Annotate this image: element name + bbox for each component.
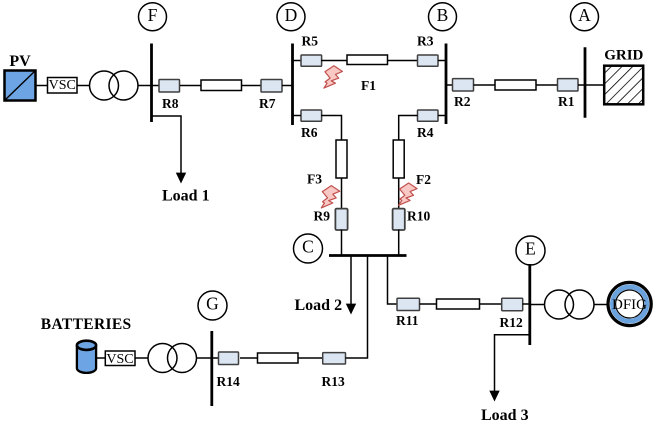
relay R1 (558, 79, 579, 109)
generator DFIG (608, 282, 651, 325)
svg-text:R7: R7 (259, 96, 276, 111)
wire bus F to R8 (152, 85, 160, 87)
fault F3 lightning (307, 172, 340, 208)
svg-text:R13: R13 (322, 374, 345, 389)
svg-text:Load 2: Load 2 (295, 297, 343, 314)
load 2 arrow (295, 256, 357, 315)
line F-D impedance (201, 80, 242, 91)
wire VSC to transformer (135, 357, 148, 359)
node C (294, 234, 323, 263)
svg-text:R10: R10 (407, 209, 430, 224)
svg-text:VSC: VSC (49, 78, 76, 93)
bus B (445, 44, 448, 125)
converter VSC (PV) (48, 78, 78, 94)
svg-text:R14: R14 (217, 374, 240, 389)
relay R7 (259, 80, 282, 112)
wire R9 to bus C (341, 230, 343, 256)
relay R12 (500, 298, 523, 330)
bus G (210, 331, 213, 406)
svg-text:F2: F2 (416, 172, 431, 187)
transformer T2 (battery) (148, 344, 197, 373)
line C-E impedance (437, 299, 480, 309)
svg-text:R2: R2 (454, 94, 471, 109)
relay R2 (453, 79, 474, 109)
wire bus B to R2 (446, 84, 453, 86)
bus D (291, 44, 294, 126)
node B (429, 3, 457, 31)
bus E (528, 264, 531, 345)
wire line to R1 (536, 84, 558, 86)
wire R13 to bus C (346, 256, 368, 359)
svg-text:R3: R3 (417, 33, 434, 48)
svg-text:F: F (148, 5, 158, 25)
wire bus D to R6 (293, 115, 302, 117)
svg-text:R8: R8 (162, 96, 179, 111)
wire R4 to line F2 (399, 116, 418, 141)
wire R5 to line F1 (321, 60, 347, 62)
wire transformer to bus F (138, 85, 152, 87)
bus F (150, 44, 153, 123)
svg-text:D: D (285, 5, 298, 25)
relay R14 (217, 352, 240, 389)
line D-C impedance F3 (336, 140, 347, 178)
wire R3 to bus B (438, 60, 446, 62)
line D-B impedance F1 (347, 55, 388, 65)
svg-text:R5: R5 (302, 33, 319, 48)
wire bus A to GRID (585, 84, 603, 86)
wire bus E to transformer (530, 304, 545, 306)
svg-text:B: B (437, 5, 449, 25)
relay R9 (314, 209, 348, 231)
svg-text:Load 1: Load 1 (162, 187, 210, 204)
relay R3 (417, 33, 438, 66)
relay R11 (396, 298, 420, 328)
svg-text:GRID: GRID (604, 48, 643, 64)
svg-text:G: G (206, 294, 219, 314)
node E (516, 236, 545, 265)
node F (139, 3, 167, 31)
BATTERIES source (41, 316, 132, 373)
relay R13 (322, 353, 346, 389)
svg-text:R4: R4 (417, 125, 434, 140)
transformer T1 (PV) (90, 71, 139, 100)
node A (571, 3, 599, 31)
wire R11 to line (420, 303, 437, 305)
svg-text:R12: R12 (500, 315, 523, 330)
wire bus G to R14 (212, 357, 219, 359)
wire bus C down to R11 branch (388, 256, 398, 305)
wire R12 to bus E (523, 303, 530, 305)
svg-text:C: C (302, 237, 314, 257)
wire line F1 to R3 (388, 60, 418, 62)
svg-text:A: A (578, 5, 591, 25)
load 3 arrow (481, 335, 530, 424)
PV source (5, 53, 36, 101)
wire PV to VSC (36, 85, 48, 87)
relay R5 (301, 33, 322, 66)
GRID source (604, 48, 643, 105)
transformer T3 (DFIG) (545, 290, 595, 319)
svg-text:DFIG: DFIG (612, 297, 647, 313)
svg-text:PV: PV (9, 53, 31, 70)
wire line to R12 (480, 303, 502, 305)
wire transformer to bus G (197, 357, 212, 359)
svg-text:F3: F3 (307, 172, 322, 187)
svg-text:R11: R11 (396, 313, 419, 328)
bus A (584, 47, 587, 117)
fault F1 lightning (324, 66, 376, 93)
wire VSC to transformer (77, 85, 90, 87)
line G-C impedance (258, 353, 299, 363)
relay R8 (159, 80, 180, 112)
wire R6 to line F3 (321, 116, 342, 141)
wire transformer to DFIG (594, 304, 607, 306)
svg-text:R9: R9 (314, 209, 331, 224)
wire R1 to bus A (578, 84, 585, 86)
svg-text:VSC: VSC (106, 352, 133, 367)
node G (198, 291, 227, 320)
wire R2 to line (474, 84, 496, 86)
svg-text:R6: R6 (301, 125, 318, 140)
relay R10 (393, 209, 431, 231)
wire line F3 to R9 (341, 178, 343, 208)
wire line to R7 (242, 85, 262, 87)
line B-C impedance F2 (393, 140, 404, 178)
wire line to R13 (298, 357, 323, 359)
bus C (329, 254, 407, 257)
wire bus B to R4 (438, 115, 446, 117)
svg-text:BATTERIES: BATTERIES (41, 316, 132, 333)
relay R4 (417, 110, 438, 140)
svg-text:E: E (525, 239, 536, 259)
wire R7 to bus D (282, 85, 293, 87)
svg-text:F1: F1 (361, 78, 376, 93)
line B-A impedance (495, 80, 536, 90)
relay R6 (301, 110, 322, 140)
fault F2 lightning (399, 172, 432, 206)
svg-text:Load 3: Load 3 (481, 407, 529, 424)
wire R14 to line (240, 357, 258, 359)
load 1 arrow (152, 116, 210, 204)
wire line F2 to R10 (398, 178, 400, 208)
converter VSC (battery) (105, 351, 135, 367)
wire battery to VSC (96, 357, 105, 359)
wire R10 to bus C (398, 230, 400, 256)
node D (277, 3, 305, 31)
wire R8 to line (180, 85, 201, 87)
svg-text:R1: R1 (558, 94, 575, 109)
wire bus D to R5 (293, 60, 302, 62)
